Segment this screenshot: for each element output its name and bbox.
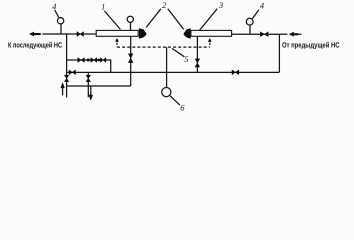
drain stub pump1 (dashed with up arrow) (115, 38, 119, 42)
pump P2 casing (191, 30, 232, 36)
wire: line C y=86 (67, 85, 131, 87)
valve A2 (91, 58, 97, 63)
wire: left discharge main line y=34 (43, 33, 96, 35)
incoming arrow from previous station (points left) (279, 33, 287, 35)
gauge circle 4 left (57, 18, 63, 24)
pump P1 casing (96, 30, 138, 36)
valve vertical on x=88.3 (86, 75, 91, 81)
stem to gauge 4 right (249, 25, 251, 34)
leader label 1 (104, 11, 120, 30)
leader label 2 right (168, 9, 184, 30)
wire: right suction main line y=34.2 (232, 33, 280, 35)
svg-text:1: 1 (101, 2, 105, 12)
wire: vertical x=130.7 pump1 drain to line C (130, 36, 132, 86)
valve on B left (69, 70, 76, 75)
sump pump circle 6 (162, 88, 171, 97)
svg-text:К последующей НС: К последующей НС (8, 41, 62, 50)
dashed drain header D y=47.4 (117, 46, 210, 48)
valve A3 (100, 58, 106, 63)
node: stem to gauge 4 left (60, 24, 62, 34)
leader label 6 (170, 96, 180, 105)
outflow down-arrow stub (90, 86, 92, 95)
leader label 2 left (146, 9, 161, 28)
leader to label 4 left (55, 10, 59, 17)
valve on B right (232, 70, 239, 75)
gauge stem on P1 (130, 22, 132, 30)
valve on right main line (260, 32, 268, 37)
leader label 5 (172, 48, 184, 56)
leader to label 4 right (252, 10, 259, 19)
dot node on A (87, 59, 90, 62)
wire: vertical x=167.2 from D to sump pump 6 (166, 47, 168, 88)
valve vertical on x=130.7 (128, 54, 133, 63)
dot node on A (97, 59, 100, 62)
svg-text:2: 2 (162, 0, 167, 10)
valve on left main line (77, 32, 84, 37)
wire: vertical x=65.5 from main to line C (66, 34, 68, 98)
pump P1 discharge cone (139, 28, 147, 39)
drain stub pump2 (dashed with up arrow) (208, 38, 212, 42)
wire: collector line B y=72.3 (67, 71, 280, 73)
leader label 3 (199, 9, 217, 31)
valve A1 (78, 58, 85, 63)
valve vertical on x=65.5 between B and C (64, 75, 69, 81)
arrow to next station (points left) (29, 32, 41, 37)
gauge circle 4 right (246, 18, 253, 25)
svg-text:5: 5 (184, 54, 188, 64)
svg-text:От предыдущей НС: От предыдущей НС (282, 41, 340, 50)
svg-text:3: 3 (218, 0, 223, 10)
pump P2 suction cone (184, 28, 191, 39)
svg-text:4: 4 (52, 1, 57, 11)
inflow up-arrow stub (62, 87, 64, 95)
wire: bypass line A y=60.3 (67, 60, 111, 72)
valve vertical on x=197.7 (195, 59, 200, 67)
wire: vertical x=197.7 pump2 drain to line B (196, 36, 198, 72)
gauge circle 1 (127, 16, 133, 22)
svg-text:6: 6 (180, 103, 185, 113)
wire: vertical x=88.3 between B and C (87, 72, 89, 97)
wire: vertical x=279.4 down to line B (278, 34, 280, 72)
